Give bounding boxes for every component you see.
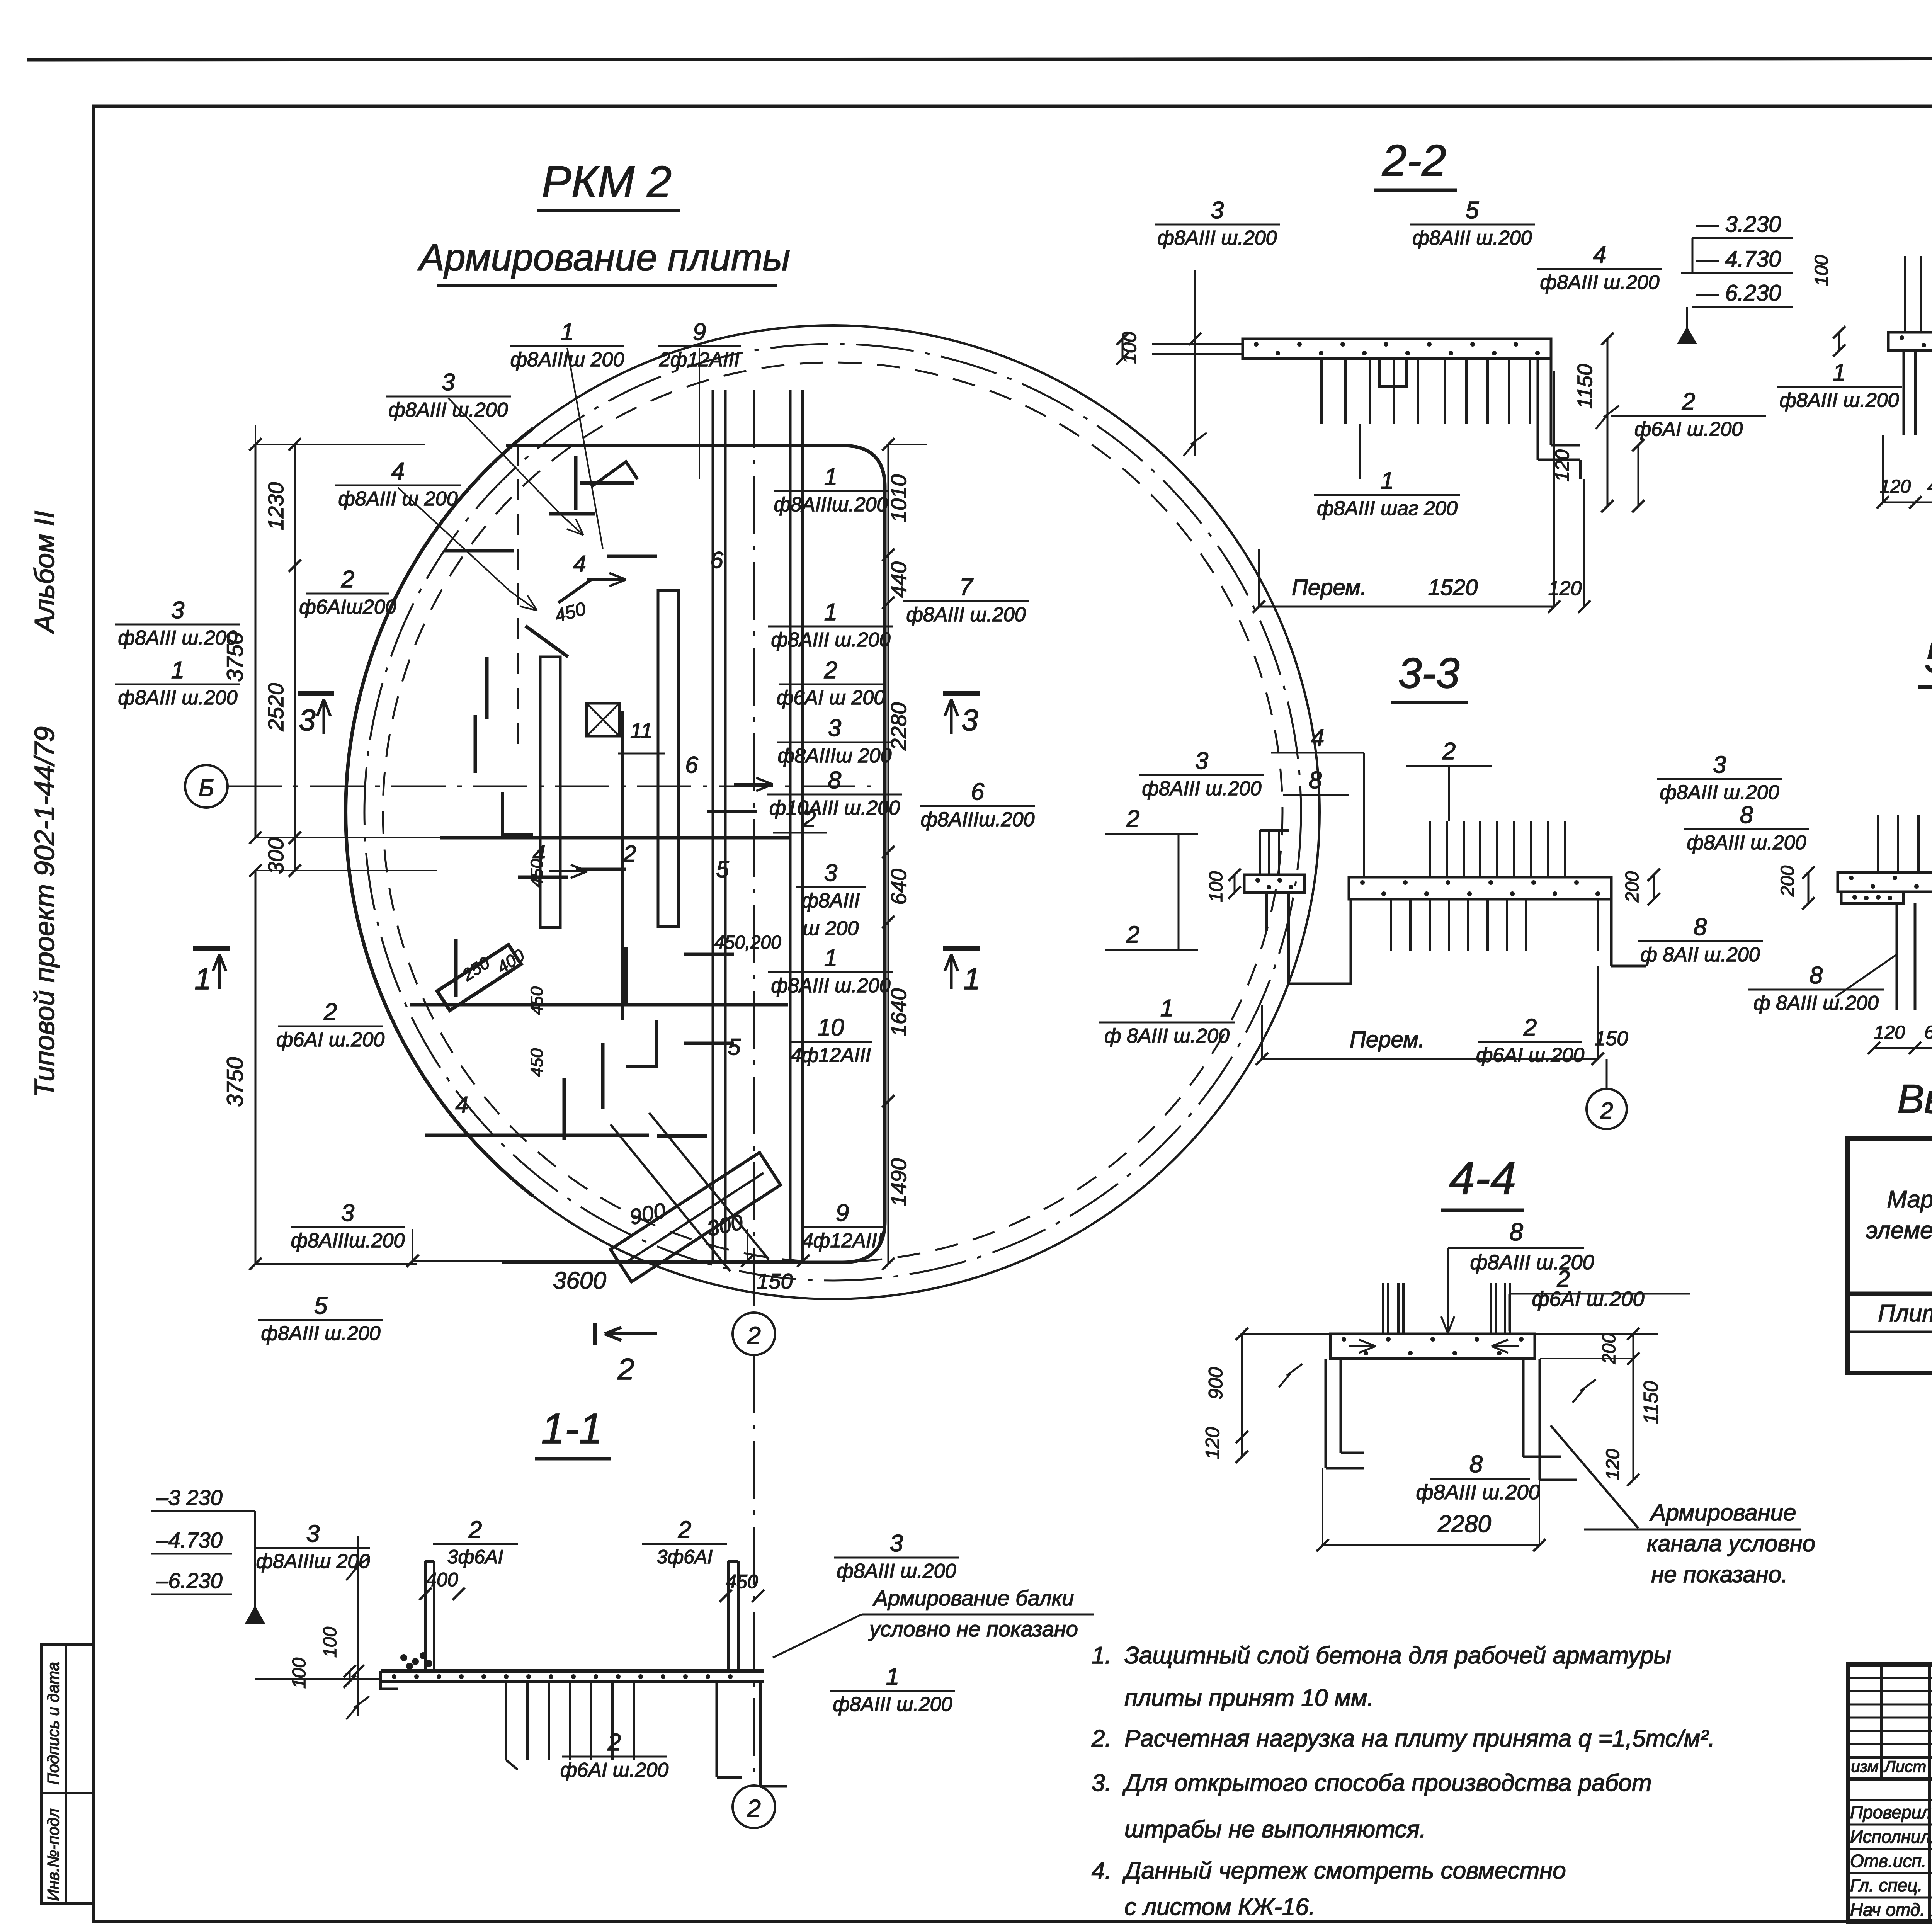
inventory stamp box [42,1645,94,1904]
svg-text:3: 3 [306,1520,320,1547]
svg-text:100: 100 [320,1627,340,1658]
svg-text:Армирование: Армирование [1649,1500,1796,1526]
section 1-1 [151,1355,1094,1828]
svg-text:5: 5 [1466,197,1479,224]
plan РКМ 2 Армирование плиты [115,157,1320,1386]
axis Б circle [185,765,228,808]
svg-text:ф8АIII ш.200: ф8АIII ш.200 [261,1322,380,1345]
table Выборка стали на один элемент [1847,1077,1932,1373]
svg-text:1: 1 [1833,359,1846,386]
svg-text:1010: 1010 [886,474,911,523]
svg-text:ф8АIIIш 200: ф8АIIIш 200 [778,745,892,767]
plan right dimension chain [882,438,895,451]
svg-text:Данный чертеж смотреть сов: Данный чертеж смотреть совместно [1122,1857,1566,1884]
svg-text:ф8АIII ш.200: ф8АIII ш.200 [1470,1251,1594,1274]
svg-text:ф8АIII ш.200: ф8АIII ш.200 [1412,227,1532,249]
svg-text:6: 6 [685,752,698,778]
svg-text:1230: 1230 [264,482,288,531]
svg-text:1.: 1. [1092,1642,1112,1669]
svg-text:100: 100 [289,1658,310,1689]
svg-text:4: 4 [455,1092,468,1118]
svg-text:4ф12АIII: 4ф12АIII [802,1230,883,1252]
svg-text:ф6АI ш.200: ф6АI ш.200 [276,1029,384,1051]
svg-text:3: 3 [1195,748,1208,774]
svg-text:не показано.: не показано. [1651,1561,1787,1587]
svg-text:Лист: Лист [1883,1757,1926,1776]
section 6-6 [1777,126,1932,509]
svg-text:100: 100 [1811,255,1832,286]
svg-text:100: 100 [1206,871,1226,902]
svg-text:ф 8АIII ш.200: ф 8АIII ш.200 [1753,992,1879,1014]
svg-text:3: 3 [961,703,978,737]
svg-text:Расчетная нагрузка на плиту: Расчетная нагрузка на плиту принята q =1… [1124,1725,1715,1752]
svg-text:4-4: 4-4 [1449,1152,1516,1204]
svg-text:1: 1 [1160,995,1173,1022]
svg-text:–4.730: –4.730 [156,1528,222,1552]
svg-text:2: 2 [1682,388,1695,415]
svg-text:450,200: 450,200 [714,932,781,953]
svg-text:Альбом II: Альбом II [29,511,60,634]
svg-text:8: 8 [1740,802,1753,828]
svg-text:1: 1 [194,962,211,996]
svg-text:1490: 1490 [886,1158,911,1207]
svg-text:ф6АI ш.200: ф6АI ш.200 [1476,1044,1584,1066]
svg-text:3: 3 [1211,197,1224,224]
svg-text:ф8АIII ш.200: ф8АIII ш.200 [1416,1481,1540,1504]
svg-text:9: 9 [836,1200,849,1226]
svg-text:Марка: Марка [1887,1186,1932,1213]
svg-text:Выборка стали на один элемент,: Выборка стали на один элемент,кг. [1897,1077,1932,1122]
svg-text:ф8АIII ш.200: ф8АIII ш.200 [1687,832,1806,854]
svg-text:ф 8АII ш.200: ф 8АII ш.200 [1640,944,1760,966]
svg-text:200: 200 [1599,1333,1619,1364]
svg-text:8: 8 [1694,914,1707,940]
svg-text:450: 450 [527,986,546,1015]
svg-text:120: 120 [1603,1449,1623,1480]
svg-text:Перем.: Перем. [1292,575,1367,600]
svg-text:1: 1 [824,945,837,971]
svg-text:ф8АIIIш 200: ф8АIIIш 200 [510,349,624,371]
svg-text:1520: 1520 [1428,575,1478,600]
svg-text:4: 4 [573,551,586,577]
svg-text:Гл. спец.: Гл. спец. [1850,1875,1922,1895]
svg-text:2: 2 [1523,1014,1537,1041]
svg-text:9: 9 [693,319,706,345]
svg-text:Проверил: Проверил [1850,1802,1931,1822]
svg-text:штрабы не выполняются.: штрабы не выполняются. [1124,1816,1426,1843]
svg-text:плиты принят 10 мм.: плиты принят 10 мм. [1124,1685,1374,1711]
svg-text:ф8АIII ш.200: ф8АIII ш.200 [1540,271,1659,294]
svg-text:2: 2 [323,999,337,1026]
svg-text:8: 8 [1810,962,1823,989]
svg-text:ф6АIш200: ф6АIш200 [299,596,396,618]
svg-text:ф6АI ш.200: ф6АI ш.200 [1634,418,1743,440]
tank wall outer circle [346,325,1320,1299]
svg-text:1150: 1150 [1640,1381,1662,1424]
svg-text:Исполнил: Исполнил [1850,1827,1931,1847]
svg-text:ф8АIII ш.200: ф8АIII ш.200 [1157,227,1277,249]
svg-text:ф8АIII ш 200: ф8АIII ш 200 [338,488,457,510]
sheet trim line [27,58,1932,60]
svg-text:2: 2 [617,1352,634,1386]
svg-text:ф8АIII ш.200: ф8АIII ш.200 [118,687,237,709]
svg-text:2: 2 [607,1729,621,1756]
svg-text:1-1: 1-1 [541,1405,603,1452]
svg-text:3: 3 [171,597,184,624]
svg-text:2.: 2. [1091,1725,1112,1752]
svg-text:1: 1 [824,464,837,490]
svg-text:3: 3 [442,369,455,396]
svg-text:Перем.: Перем. [1350,1027,1425,1052]
svg-text:8: 8 [1509,1218,1523,1246]
svg-text:1: 1 [963,962,980,996]
svg-text:150: 150 [1595,1027,1628,1050]
svg-text:300: 300 [264,838,288,874]
title block ТП 902-1-44/79-КЖ [1848,1665,1932,1932]
svg-text:ф8АIII ш.200: ф8АIII ш.200 [906,604,1026,626]
svg-text:РКМ 2: РКМ 2 [542,157,672,207]
svg-text:ф8АIIIш.200: ф8АIIIш.200 [291,1230,405,1252]
svg-text:2: 2 [1442,738,1456,765]
svg-text:4ф12АIII: 4ф12АIII [791,1044,871,1066]
svg-text:450: 450 [527,1048,546,1077]
svg-text:ф8АIII ш.200: ф8АIII ш.200 [771,629,890,651]
svg-text:2520: 2520 [264,683,288,732]
svg-text:1: 1 [886,1663,899,1690]
svg-text:4: 4 [1593,241,1606,268]
plan interior rebar marks [540,657,560,927]
svg-text:120: 120 [1880,476,1911,497]
svg-text:Подпись и дата: Подпись и дата [44,1662,62,1785]
svg-text:канала условно: канала условно [1647,1531,1815,1556]
svg-text:4: 4 [391,458,405,485]
svg-text:200: 200 [1777,866,1798,897]
svg-text:Б: Б [199,775,214,801]
svg-text:— 6.230: — 6.230 [1696,281,1781,306]
svg-text:7: 7 [959,574,974,600]
svg-text:5: 5 [314,1293,328,1319]
plan left dimension chain [255,444,257,838]
svg-text:2-2: 2-2 [1382,136,1446,185]
svg-text:3600: 3600 [553,1267,606,1294]
svg-text:ф8АIII ш.200: ф8АIII ш.200 [771,975,890,997]
svg-text:3750: 3750 [223,1057,248,1107]
svg-text:Для открытого способа произ: Для открытого способа производства работ [1122,1770,1652,1796]
section cut marks [298,691,334,696]
svg-text:изм: изм [1851,1757,1878,1776]
svg-text:Плита: Плита [1878,1300,1932,1327]
svg-text:элемента: элемента [1866,1217,1932,1244]
svg-text:— 4.730: — 4.730 [1696,247,1781,272]
svg-text:ф8АIII ш.200: ф8АIII ш.200 [118,627,237,649]
svg-text:Нач отд.: Нач отд. [1850,1900,1925,1920]
svg-text:4: 4 [532,841,545,867]
svg-text:1150: 1150 [1573,364,1597,409]
svg-text:ф8АIII ш.200: ф8АIII ш.200 [837,1560,956,1582]
svg-text:200: 200 [1622,871,1643,903]
svg-text:6: 6 [971,779,985,805]
svg-text:10: 10 [818,1014,844,1041]
svg-text:6: 6 [710,547,723,573]
svg-text:2280: 2280 [886,702,911,751]
svg-text:ф6АI ш.200: ф6АI ш.200 [1532,1287,1644,1311]
svg-text:ф8АIIIш.200: ф8АIIIш.200 [774,493,888,516]
general notes 1-4 [1091,1642,1715,1920]
svg-text:3: 3 [1713,752,1726,778]
svg-text:150: 150 [757,1269,793,1293]
svg-text:2: 2 [747,1794,761,1822]
svg-text:2280: 2280 [1437,1511,1491,1537]
svg-text:120: 120 [1874,1022,1905,1043]
slab outline [506,444,842,447]
svg-text:4: 4 [1311,724,1324,751]
svg-text:5: 5 [728,1034,741,1060]
svg-text:–3 230: –3 230 [156,1485,222,1510]
svg-text:Армирование плиты: Армирование плиты [417,236,791,279]
svg-text:1: 1 [561,319,574,345]
section 3-3 [1099,650,1809,1129]
svg-text:ф8АIIIш 200: ф8АIIIш 200 [256,1550,370,1573]
svg-text:440: 440 [886,561,911,597]
svg-text:2: 2 [824,657,837,684]
svg-text:2: 2 [623,841,636,867]
svg-text:ф8АIII ш.200: ф8АIII ш.200 [1779,389,1899,412]
svg-text:ф8АIII шаг 200: ф8АIII шаг 200 [1317,497,1458,520]
plan bottom dimension 3600/150 [413,1260,747,1262]
svg-text:3-3: 3-3 [1398,650,1460,697]
svg-text:3: 3 [299,703,315,737]
svg-text:5-5: 5-5 [1925,634,1932,682]
svg-text:Инв.№-подл: Инв.№-подл [44,1808,62,1901]
svg-text:1: 1 [824,599,837,626]
svg-text:2: 2 [468,1517,482,1543]
svg-text:640: 640 [886,869,911,905]
svg-text:2: 2 [803,806,816,832]
svg-text:Отв.исп.: Отв.исп. [1850,1851,1927,1871]
svg-text:ф10АIII ш.200: ф10АIII ш.200 [769,797,900,819]
svg-text:Типовой проект 902-1-44/79: Типовой проект 902-1-44/79 [29,726,60,1097]
svg-text:с листом КЖ-16.: с листом КЖ-16. [1124,1894,1315,1920]
svg-text:ф8АIIIш.200: ф8АIIIш.200 [921,808,1035,831]
svg-text:3: 3 [341,1200,354,1226]
svg-text:2: 2 [747,1321,761,1349]
svg-text:2: 2 [341,566,354,593]
svg-text:–6.230: –6.230 [156,1568,222,1593]
svg-text:640: 640 [1924,1022,1932,1043]
svg-text:2: 2 [1126,806,1139,832]
svg-text:440: 440 [1927,476,1932,497]
svg-text:ф8АIII ш.200: ф8АIII ш.200 [1660,781,1779,804]
section 4-4 [1202,1152,1815,1587]
svg-text:5: 5 [716,856,729,882]
svg-text:3.: 3. [1092,1770,1112,1796]
svg-text:1: 1 [171,657,184,684]
svg-text:3ф6АI: 3ф6АI [657,1546,713,1568]
svg-text:900: 900 [1205,1367,1226,1400]
svg-text:2: 2 [1600,1098,1613,1124]
svg-text:ф8АIII ш.200: ф8АIII ш.200 [833,1693,952,1716]
svg-text:Армирование балки: Армирование балки [872,1586,1074,1610]
svg-text:Защитный слой бетона для раб: Защитный слой бетона для рабочей арматур… [1124,1642,1671,1669]
svg-text:условно не показано: условно не показано [868,1617,1078,1641]
svg-text:120: 120 [1202,1427,1223,1459]
svg-text:11: 11 [630,718,653,743]
svg-text:2ф12АIII: 2ф12АIII [659,349,740,371]
svg-text:2: 2 [678,1517,691,1543]
channel band walls [712,390,714,1262]
svg-text:ф8АIII ш.200: ф8АIII ш.200 [1142,777,1261,800]
svg-text:3: 3 [828,715,841,742]
section 2-2 [1116,136,1793,613]
svg-text:8: 8 [1469,1451,1483,1478]
svg-text:3ф6АI: 3ф6АI [447,1546,503,1568]
svg-text:3: 3 [824,860,837,886]
svg-text:120: 120 [1548,577,1582,600]
svg-text:2: 2 [1126,922,1139,948]
svg-text:1: 1 [1381,468,1394,494]
svg-text:ф6АI ш.200: ф6АI ш.200 [560,1759,668,1781]
svg-text:4.: 4. [1092,1857,1112,1884]
svg-text:— 3.230: — 3.230 [1696,212,1781,237]
svg-text:ф8АIII: ф8АIII [802,889,860,912]
svg-text:ф 8АIII ш.200: ф 8АIII ш.200 [1104,1025,1230,1047]
section 5-5 [1748,634,1932,1081]
svg-text:ф8АIII ш.200: ф8АIII ш.200 [388,399,508,421]
svg-text:3: 3 [890,1530,903,1557]
svg-text:8: 8 [1309,767,1322,794]
svg-text:8: 8 [828,767,842,794]
svg-text:ф6АI ш 200: ф6АI ш 200 [777,687,885,709]
svg-text:ш 200: ш 200 [803,917,859,940]
